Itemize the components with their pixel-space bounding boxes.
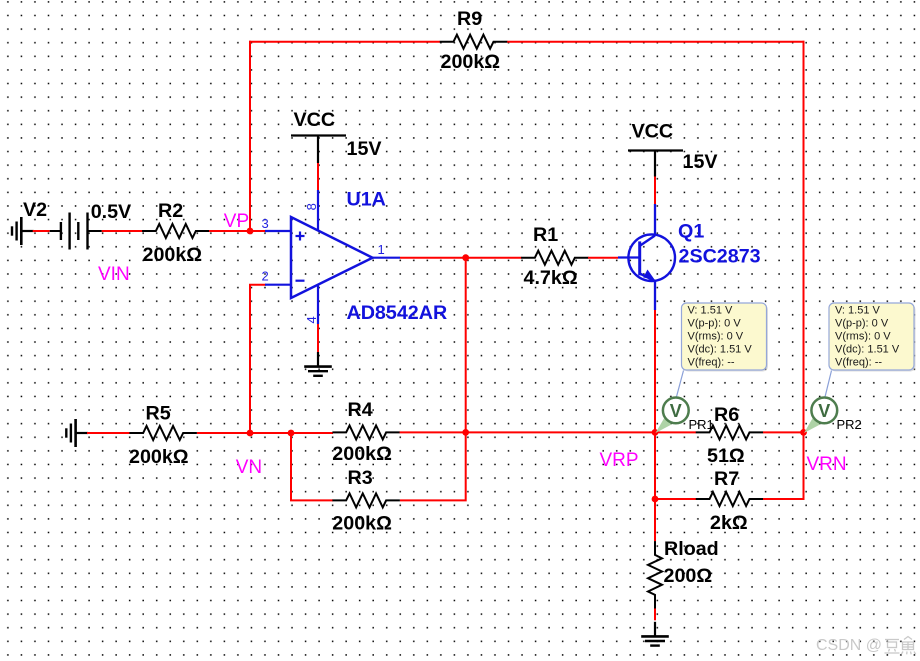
- watermark CSDN: [816, 637, 916, 655]
- VCC symbol (Q1): [628, 151, 683, 177]
- node VN junction (R3 branch): [288, 430, 295, 437]
- probe PR2 leader line: [825, 371, 832, 398]
- wire: top feedback net left segment: [249, 41, 440, 43]
- svg-text:200kΩ: 200kΩ: [143, 244, 203, 266]
- svg-text:2: 2: [262, 269, 269, 284]
- svg-text:Rload: Rload: [664, 538, 719, 560]
- svg-text:CSDN @: CSDN @: [816, 637, 882, 654]
- node VP junction: [247, 228, 254, 235]
- svg-text:V: V: [670, 401, 682, 421]
- node VN junction (pin2 branch): [247, 430, 254, 437]
- op-amp pin 2 lead: [265, 284, 291, 286]
- ground (Rload): [641, 622, 669, 646]
- ground (op-amp pin 4): [304, 352, 332, 376]
- svg-text:R3: R3: [348, 467, 373, 489]
- svg-text:3: 3: [262, 216, 269, 231]
- svg-text:R7: R7: [714, 468, 739, 490]
- svg-text:200kΩ: 200kΩ: [129, 446, 189, 468]
- node PR2 junction: [800, 429, 807, 436]
- svg-text:15V: 15V: [683, 151, 718, 173]
- svg-text:R6: R6: [714, 404, 739, 426]
- svg-text:V2: V2: [23, 199, 47, 221]
- wire: output to R1: [400, 257, 522, 259]
- svg-text:V(dc): 1.51 V: V(dc): 1.51 V: [835, 344, 900, 356]
- wire: R7 row left: [655, 498, 696, 500]
- svg-text:R5: R5: [146, 403, 171, 425]
- svg-text:0.5V: 0.5V: [91, 201, 132, 223]
- probe PR2 circle: [811, 398, 837, 424]
- wire: Q1 emitter down to VRP node: [654, 310, 656, 433]
- wire: top feedback net right segment: [507, 41, 805, 43]
- wire: pin 4 red segment: [317, 324, 319, 352]
- node at output branch: [462, 254, 469, 261]
- op-amp plus marking: [296, 232, 305, 241]
- probe PR1 flag: [656, 418, 672, 434]
- wire: ground to R5: [87, 432, 130, 434]
- svg-text:51Ω: 51Ω: [707, 445, 745, 467]
- svg-text:R9: R9: [457, 8, 482, 30]
- measurement box PR2: [829, 303, 916, 372]
- probe PR1 circle: [663, 398, 689, 424]
- probe PR2 flag: [804, 418, 820, 434]
- op-amp pin 3 lead: [265, 230, 291, 232]
- svg-text:V(freq): --: V(freq): --: [835, 357, 882, 369]
- resistor R3: [332, 493, 400, 507]
- svg-text:4: 4: [304, 316, 319, 323]
- wire: VRP node down to R7 row and Rload: [654, 432, 656, 541]
- svg-text:V(rms): 0 V: V(rms): 0 V: [688, 331, 744, 343]
- svg-text:VRP: VRP: [600, 450, 639, 471]
- wire: VCC to Q1 collector: [654, 177, 656, 205]
- wire: R6 to PR2 node: [763, 431, 804, 433]
- resistor R6: [696, 425, 764, 439]
- measurement box PR1: [682, 303, 769, 372]
- svg-text:AD8542AR: AD8542AR: [347, 302, 448, 324]
- resistor R1: [521, 251, 589, 265]
- wire: ground to battery: [33, 230, 50, 232]
- VCC symbol (op-amp): [291, 136, 346, 164]
- resistor R2: [142, 224, 210, 238]
- wire: left vertical from top to VP: [249, 41, 251, 231]
- svg-text:V(freq): --: V(freq): --: [688, 357, 735, 369]
- svg-text:V(p-p): 0 V: V(p-p): 0 V: [688, 318, 742, 330]
- op-amp pin 4 lead: [317, 285, 319, 324]
- svg-text:VIN: VIN: [98, 264, 130, 285]
- svg-text:VCC: VCC: [632, 121, 674, 143]
- svg-text:PR2: PR2: [837, 417, 862, 432]
- svg-text:R4: R4: [348, 399, 373, 421]
- svg-text:V(dc): 1.51 V: V(dc): 1.51 V: [688, 344, 753, 356]
- svg-text:V: V: [818, 401, 830, 421]
- svg-text:V(rms): 0 V: V(rms): 0 V: [835, 331, 891, 343]
- wire: VRP row from mid vertical to R6: [466, 431, 696, 433]
- svg-text:VN: VN: [236, 457, 262, 478]
- resistor R5: [129, 426, 197, 440]
- wire: Rload red segment to ground: [654, 609, 656, 621]
- node R7 branch junction: [652, 496, 659, 503]
- node R4/vertical junction: [462, 429, 469, 436]
- svg-text:R2: R2: [158, 200, 183, 222]
- wire: right vertical from top to R7 row: [803, 41, 805, 499]
- wire: R5 to R4 (VN row): [197, 432, 333, 434]
- wire: battery to R2: [102, 230, 143, 232]
- transistor Q1: [618, 204, 675, 310]
- wire: pin2 red stub: [250, 285, 266, 433]
- op-amp U1A triangle: [291, 217, 373, 298]
- svg-text:V: 1.51 V: V: 1.51 V: [835, 305, 881, 317]
- ground for R5 (left): [66, 419, 88, 447]
- wire: VCC red segment to pin 8: [317, 163, 319, 190]
- svg-text:15V: 15V: [347, 138, 382, 160]
- svg-text:V(p-p): 0 V: V(p-p): 0 V: [835, 318, 889, 330]
- op-amp minus marking: [296, 280, 305, 282]
- resistor R7: [696, 492, 764, 506]
- svg-text:VCC: VCC: [294, 109, 336, 131]
- probe PR1 leader line: [676, 371, 683, 398]
- battery V2: [50, 213, 102, 250]
- svg-text:1: 1: [378, 242, 385, 257]
- op-amp output pin 1 lead: [373, 257, 401, 259]
- node VRP junction: [652, 429, 659, 436]
- ground for V2 (left): [12, 217, 34, 245]
- svg-text:R1: R1: [533, 224, 558, 246]
- resistor Rload (vertical): [648, 541, 662, 609]
- resistor R9: [440, 35, 508, 49]
- svg-text:2SC2873: 2SC2873: [679, 246, 761, 268]
- svg-text:200kΩ: 200kΩ: [332, 443, 392, 465]
- svg-text:VRN: VRN: [807, 454, 847, 475]
- wire: R2 to VP node: [209, 230, 251, 232]
- svg-text:VP: VP: [224, 211, 249, 232]
- resistor R4: [332, 425, 400, 439]
- svg-text:200Ω: 200Ω: [664, 565, 713, 587]
- wire: R3 branch vertical: [291, 433, 333, 500]
- svg-text:Q1: Q1: [678, 221, 704, 243]
- wire: R1 to Q1 base: [588, 257, 618, 259]
- svg-text:200kΩ: 200kΩ: [441, 51, 501, 73]
- svg-text:U1A: U1A: [347, 189, 386, 211]
- wire: VP to op-amp pin 3: [250, 230, 265, 232]
- wire: vertical branch from output node down to R3 row: [400, 258, 466, 501]
- svg-text:PR1: PR1: [689, 417, 714, 432]
- wire: R4 to mid vertical node: [400, 431, 466, 433]
- svg-text:4.7kΩ: 4.7kΩ: [524, 267, 578, 289]
- svg-text:2kΩ: 2kΩ: [710, 512, 748, 534]
- svg-text:V: 1.51 V: V: 1.51 V: [688, 305, 734, 317]
- svg-text:8: 8: [304, 203, 319, 210]
- svg-text:200kΩ: 200kΩ: [332, 513, 392, 535]
- wire: R7 to right vertical: [763, 498, 805, 500]
- op-amp pin 8 lead: [317, 190, 319, 231]
